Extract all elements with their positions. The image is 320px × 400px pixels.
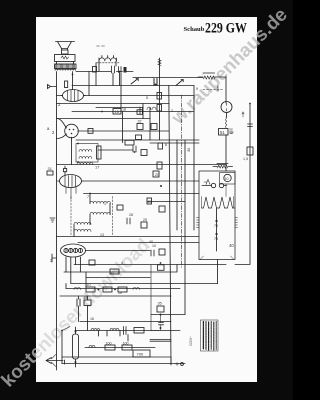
resistor R12 <box>110 269 119 274</box>
svg-text:100: 100 <box>106 342 112 346</box>
svg-text:35: 35 <box>158 302 162 306</box>
node bf bot <box>77 161 79 163</box>
rail bottom h6 <box>80 321 171 323</box>
coil L2 <box>147 107 156 109</box>
wire speaker to output transformer <box>57 62 74 65</box>
wire lamp to fuse <box>226 113 228 118</box>
resistor R19 <box>122 345 132 350</box>
svg-text:1,5: 1,5 <box>243 157 248 161</box>
node osc <box>89 193 91 195</box>
wire V3 plate <box>84 180 200 182</box>
wire V2 grid right <box>78 130 169 132</box>
svg-text:25: 25 <box>143 218 147 222</box>
wire osc junction <box>74 194 110 237</box>
speaker magnet / field coil <box>55 55 76 62</box>
L1 taps <box>99 56 116 62</box>
rail mid b <box>150 142 199 144</box>
right column wire <box>235 104 250 265</box>
svg-text:17: 17 <box>95 165 100 170</box>
node bf top <box>77 143 79 145</box>
resistor column Rc <box>153 171 159 177</box>
rail pair h8 <box>150 340 171 342</box>
wire 49 <box>79 296 88 322</box>
heater pin a <box>211 183 215 187</box>
small comp 31 <box>47 171 53 175</box>
vertical mid x143 <box>142 104 144 119</box>
trimmer arrow T1 <box>176 80 183 86</box>
resistor R8 <box>141 150 147 156</box>
resistor R24 <box>247 147 253 155</box>
oscillator coil L5a <box>90 201 110 203</box>
svg-text:20: 20 <box>155 173 159 177</box>
coil L8 <box>133 288 139 290</box>
coil L3b <box>79 157 92 159</box>
rail long AF <box>57 164 227 166</box>
rail bottom h3 <box>66 288 180 290</box>
supply unit box <box>199 171 235 260</box>
svg-text:4: 4 <box>121 261 123 265</box>
earth symbol left <box>50 218 55 222</box>
resistor column Rb <box>157 162 162 169</box>
rail osc <box>84 193 200 195</box>
L1 dashed core <box>97 62 120 64</box>
svg-text:8: 8 <box>165 143 167 147</box>
dashed stub <box>151 330 159 332</box>
rectifier cartridge box <box>220 173 236 185</box>
resistor R16 <box>84 300 91 306</box>
white page <box>36 17 257 382</box>
wire down from cluster <box>89 72 120 96</box>
resistor R14 <box>103 287 112 292</box>
wire into V2 lower <box>57 134 67 139</box>
scale lamp coil L9 <box>91 329 100 331</box>
rubber stamp legend box <box>201 320 219 351</box>
rail heater <box>78 242 199 244</box>
label 3 arrow <box>242 112 244 117</box>
svg-text:10: 10 <box>225 177 229 181</box>
resistor R6 <box>137 124 143 130</box>
heater pin b <box>219 183 223 187</box>
rail bottom h5 <box>151 314 185 316</box>
IF transformer L1 coil <box>99 58 116 61</box>
wire center into sawtooth <box>216 209 218 252</box>
resistor column Ra <box>158 143 163 149</box>
wire fuse down <box>225 135 227 171</box>
wire grid curve into V2 <box>57 119 67 129</box>
capacitor C5 <box>127 218 130 224</box>
vertical IF left <box>95 63 97 86</box>
wire pins <box>202 185 227 187</box>
node R22 <box>160 262 162 264</box>
tube V4 (rectifier) <box>61 244 86 257</box>
wire heater drop <box>66 272 86 289</box>
svg-text:100: 100 <box>123 342 129 346</box>
dial lamp LP <box>221 102 232 113</box>
anode rail V1 <box>84 95 195 97</box>
grid wire tube V1 <box>57 95 63 97</box>
resistor R4 <box>157 105 162 112</box>
vertical IF right <box>120 73 122 112</box>
capacitor C2 blob <box>154 79 157 86</box>
capacitor C1 <box>112 66 115 73</box>
svg-text:51: 51 <box>220 130 225 135</box>
small box mid <box>89 260 95 265</box>
plus mark <box>176 363 179 366</box>
rail bottom h4 <box>60 295 171 297</box>
fuse 51 box <box>219 129 233 136</box>
svg-text:28: 28 <box>129 213 133 217</box>
box edge hatch left <box>197 218 200 228</box>
wire V3 top <box>64 166 66 176</box>
capacitor C1c dark <box>124 67 127 73</box>
resistor R10 <box>141 222 147 228</box>
resistor R21 <box>157 306 164 312</box>
node h3b <box>114 289 116 291</box>
node C2 <box>155 84 157 86</box>
svg-text:75: 75 <box>214 224 218 228</box>
wire top rail to right <box>133 77 203 79</box>
coil L4 <box>77 163 93 165</box>
svg-text:9: 9 <box>196 87 198 91</box>
svg-text:5: 5 <box>146 96 148 100</box>
heating filament sawtooth <box>202 197 235 208</box>
capacitor C6 <box>151 250 154 256</box>
svg-text:220V~: 220V~ <box>189 336 193 346</box>
output tube V1 <box>61 90 86 102</box>
output transformer primary (hatched) <box>55 64 77 69</box>
capacitor C10 <box>248 124 253 127</box>
label 2 arrow <box>217 86 218 91</box>
left bracket <box>52 254 57 262</box>
sawtooth feet <box>202 184 234 208</box>
svg-text:1: 1 <box>104 202 106 206</box>
svg-text:10: 10 <box>118 291 122 295</box>
bandfilter box L3 <box>76 144 98 163</box>
antenna coil zig <box>158 60 161 66</box>
resistor R5 box 15 <box>113 109 121 115</box>
connector v <box>150 265 152 331</box>
resistor R13 <box>86 287 95 292</box>
svg-text:32: 32 <box>138 120 142 124</box>
resistor R6c <box>136 135 142 140</box>
wire lamp feed <box>225 77 227 103</box>
node C9 <box>160 327 162 329</box>
rail bottom h2 <box>71 283 218 285</box>
oscillator coil L6a <box>74 222 91 224</box>
rail bottom h9 <box>85 347 155 349</box>
box corner tick b <box>231 256 235 260</box>
central bus vertical <box>169 86 171 366</box>
resistor column Rd <box>147 198 152 204</box>
resistor R3 <box>157 93 162 100</box>
rail detector <box>57 118 151 120</box>
node V1 plate <box>72 74 74 76</box>
tube V2 (triode circle) <box>65 124 79 140</box>
rail bottom h10 <box>62 356 171 358</box>
rail bottom h11 <box>62 363 185 365</box>
oscillator coil L6b <box>74 229 91 231</box>
tone cap C7 <box>77 299 80 306</box>
rail bottom h1b <box>86 277 150 279</box>
trimmer box <box>117 205 123 210</box>
resistor R22 <box>158 265 165 271</box>
grid cap V3 <box>64 169 67 172</box>
rail grid2 <box>72 111 194 113</box>
capacitor C4 <box>133 146 136 152</box>
osc shield dashed left <box>70 197 72 236</box>
scale coil L10 <box>110 329 119 331</box>
node column <box>160 185 162 187</box>
rail mid <box>76 139 199 141</box>
rail bottom h1 <box>64 265 177 273</box>
bus vertical 2 <box>176 140 178 230</box>
ballast resistor WW top <box>198 73 226 79</box>
svg-text:700: 700 <box>137 352 144 357</box>
capacitor C1b <box>119 67 122 73</box>
resistor R6d <box>125 140 134 145</box>
capacitor C9 <box>159 323 164 325</box>
rail long cathode <box>57 236 200 238</box>
rail coil top <box>147 201 185 203</box>
loudspeaker LS <box>56 42 75 55</box>
bottom rail ticks <box>62 357 171 364</box>
oscillator coil L5b <box>90 212 110 214</box>
coil L7 <box>74 288 80 290</box>
resistor R11 <box>159 249 165 255</box>
svg-text:7: 7 <box>87 195 89 199</box>
resistor column Re <box>159 206 165 212</box>
vertical below box <box>217 260 219 284</box>
svg-text:10: 10 <box>87 283 91 287</box>
dashed mains line <box>203 89 224 91</box>
svg-text:31: 31 <box>48 166 53 171</box>
mains switch body <box>73 327 79 367</box>
resistor R17 <box>134 328 144 334</box>
svg-text:16: 16 <box>90 317 94 321</box>
svg-text:30: 30 <box>187 148 191 152</box>
output transformer secondary (scallops) <box>55 69 76 70</box>
svg-text:18: 18 <box>122 108 126 112</box>
bus B+ rail <box>72 85 194 87</box>
svg-text:13: 13 <box>100 233 104 237</box>
resistor on V2 rail <box>88 129 93 134</box>
antenna feed line vertical <box>159 58 161 140</box>
node rail <box>101 111 103 113</box>
svg-text:49: 49 <box>83 296 87 300</box>
trimmer T2 <box>131 79 138 85</box>
rail under supply <box>74 264 226 266</box>
ballast WW2 <box>213 164 233 169</box>
resistor R15 <box>118 287 127 292</box>
node supply a <box>215 220 217 222</box>
node R21 top <box>160 314 162 316</box>
resistor R2 <box>93 67 97 73</box>
svg-text:45: 45 <box>147 200 151 204</box>
resistor R6b <box>137 110 143 115</box>
box corner tick a <box>200 256 204 260</box>
svg-text:Schaub: Schaub <box>184 26 205 33</box>
resistor R9 <box>97 146 102 159</box>
osc shield dashed right <box>112 197 114 236</box>
rectifier disc <box>224 174 231 181</box>
wire switch drop <box>61 331 63 358</box>
switch contact S1 <box>62 327 70 331</box>
capacitor C8 <box>124 327 127 335</box>
V4 pin wires <box>66 257 80 284</box>
svg-text:40: 40 <box>229 243 234 248</box>
tube V3 <box>58 175 84 200</box>
left supply rail <box>56 72 58 371</box>
mains plug arrow <box>46 355 63 367</box>
rail AVC <box>57 103 170 105</box>
node L1 <box>119 71 121 73</box>
vertical mid x150 <box>149 108 151 141</box>
title: Schaub 229 GW <box>184 19 248 35</box>
chassis dash-dot line <box>181 95 183 268</box>
wire bf to caps <box>98 149 133 151</box>
wire V2 cathode down <box>71 140 73 165</box>
thermal squiggle <box>225 117 226 128</box>
tick marks above coil <box>97 45 105 47</box>
node h3 <box>98 289 100 291</box>
wire drop x122 <box>122 112 124 143</box>
coil L3a <box>79 150 92 152</box>
svg-text:2: 2 <box>171 109 173 113</box>
bus vertical 3 <box>184 140 186 315</box>
wire V4 plate right <box>86 250 151 252</box>
lambda mark <box>204 180 210 185</box>
node C4 <box>134 151 136 153</box>
node supply b <box>215 233 217 235</box>
svg-text:15: 15 <box>115 109 120 114</box>
node right col <box>249 103 251 105</box>
rail screen <box>96 107 143 109</box>
svg-text:229 GW: 229 GW <box>205 19 248 35</box>
wire L1 joins <box>76 61 133 72</box>
coil L11 <box>89 346 95 348</box>
switch pole <box>61 330 63 332</box>
resistor R7 <box>151 124 157 130</box>
resistor R20 <box>133 350 150 357</box>
wires top row bottom-section verticals <box>88 322 129 342</box>
resistor R18 <box>105 345 115 350</box>
rail bottom h7 <box>75 330 180 332</box>
terminal circle <box>181 363 184 366</box>
svg-text:75: 75 <box>214 237 218 241</box>
cathode resistor R1 <box>65 81 68 88</box>
wire transformer to anode rail <box>72 72 74 90</box>
bus vertical 4 <box>193 86 195 231</box>
capacitor C3 <box>140 107 143 114</box>
box edge hatch right <box>235 218 238 228</box>
antenna terminal <box>48 85 57 89</box>
svg-text:10: 10 <box>152 244 156 248</box>
